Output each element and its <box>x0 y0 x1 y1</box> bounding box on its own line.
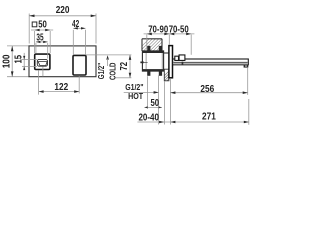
spout inner opening <box>37 59 47 66</box>
cold leader tail <box>107 59 109 67</box>
escutcheon plate side <box>169 46 173 78</box>
dim 70-90 arrow mid-left <box>164 33 169 36</box>
cold tick line <box>86 54 132 56</box>
dim 72 arrow top <box>129 55 132 60</box>
body top edge thick <box>142 51 163 53</box>
body bottom edge thick <box>142 69 163 71</box>
wall outline <box>142 39 162 51</box>
plate bottom edge extension to 100-dim <box>7 76 29 78</box>
dim 70-50 arrow mid-right <box>169 33 174 36</box>
aerator notch <box>245 66 247 67</box>
spout escutcheon square <box>35 54 50 69</box>
svg-text:122: 122 <box>54 82 68 93</box>
body peg top-left <box>147 46 150 51</box>
dim 50 arrow right <box>45 29 50 32</box>
aerator tick <box>244 65 249 68</box>
spout joint ring <box>182 62 184 65</box>
body internal line right <box>161 53 163 69</box>
dim 50 extension right <box>49 31 51 53</box>
dim 15 line <box>23 53 25 69</box>
svg-text:15: 15 <box>13 54 24 63</box>
dim 72 tick bottom <box>116 77 132 79</box>
dim 70-90 arrow left <box>147 33 152 36</box>
dim 70-90/70-50 shared extension <box>168 35 170 46</box>
dim 122 arrow right <box>74 90 79 93</box>
dim 256 line <box>170 92 247 94</box>
dim 220 line <box>29 15 96 17</box>
dim 72 arrow bottom <box>129 73 132 78</box>
dim 122 line <box>39 91 80 93</box>
svg-text:220: 220 <box>56 5 70 16</box>
dim 42 extension left <box>72 30 74 55</box>
body peg bottom-right <box>159 71 162 76</box>
dim 50 plaster extension left <box>147 76 149 109</box>
dim 42 extension right <box>85 30 87 55</box>
dim 50 arrow left <box>35 29 40 32</box>
svg-text:G1/2": G1/2" <box>125 83 144 92</box>
dim 50 plaster arrow right <box>159 106 162 108</box>
dim 35 line <box>36 41 48 43</box>
body internal line left <box>145 53 147 69</box>
dim line 70-90/70-50 <box>144 33 195 35</box>
plate top edge extension to 100-dim <box>7 45 29 47</box>
dim 256 arrow left <box>170 91 175 94</box>
svg-text:G1/2": G1/2" <box>97 63 106 80</box>
dim 220 arrow right <box>91 15 96 18</box>
svg-text:100: 100 <box>1 55 12 69</box>
spout bar <box>173 59 249 65</box>
wall section hatch <box>128 30 219 60</box>
dim 50 plaster line <box>144 106 162 108</box>
cartridge neck line <box>164 52 169 54</box>
dim 50 line <box>31 29 53 31</box>
dim 256 extension left <box>169 78 171 124</box>
dim 50 plaster extension right <box>158 75 160 124</box>
hot inlet stub <box>140 62 143 64</box>
svg-text:72: 72 <box>119 62 130 71</box>
svg-text:256: 256 <box>200 84 214 95</box>
body peg top-right <box>159 46 162 51</box>
dim 256/271 extension right (spout tip) <box>247 68 249 95</box>
handle block <box>73 55 86 75</box>
dim 20-40 leader <box>137 121 248 123</box>
dim 100 line <box>11 46 13 77</box>
spout centerline <box>42 67 44 77</box>
dim 42 arrow right <box>81 27 86 29</box>
spout lower shading <box>173 62 247 64</box>
dim 35 arrow right <box>43 41 48 43</box>
hatched block outline <box>164 69 169 81</box>
dim 122 extension left <box>38 71 40 95</box>
dim 15 tick top <box>22 59 37 61</box>
dim 70-90 extension left <box>146 35 148 51</box>
dim 220 extension left <box>28 14 30 44</box>
hot inlet line <box>144 61 148 63</box>
dim 72 line <box>129 55 131 78</box>
spout seam line <box>173 61 247 63</box>
dim 271 extension right <box>248 99 250 125</box>
dim 15 arrow top <box>23 56 25 60</box>
spout aerator mouth <box>38 62 47 66</box>
dim 50 square symbol <box>32 22 37 27</box>
hot leader arrow <box>154 91 159 94</box>
svg-text:271: 271 <box>202 111 216 122</box>
dim 35 extension left <box>35 43 37 53</box>
svg-text:HOT: HOT <box>128 92 143 101</box>
dim 70-50 extension right <box>190 35 192 55</box>
dim 50 plaster arrow left <box>144 106 147 108</box>
dim 220 extension right <box>95 14 97 44</box>
dim 50 extension left <box>34 31 36 53</box>
dim 100 arrow bottom <box>11 71 14 76</box>
dim 15 arrow bottom <box>23 66 25 70</box>
dim 35 extension right <box>47 43 49 59</box>
hot leader line <box>124 91 159 93</box>
dim 271 arrow right <box>244 121 249 124</box>
dim 256 arrow right <box>243 91 248 94</box>
dim 42 line <box>73 27 85 29</box>
body peg bottom-left <box>147 71 150 76</box>
svg-text:COLD: COLD <box>108 62 117 80</box>
dim 122 arrow left <box>39 90 44 93</box>
dim 35 arrow left <box>36 41 41 43</box>
dim 70-50 arrow right <box>186 33 191 36</box>
dim 42 arrow left <box>73 27 78 29</box>
dim 122 extension right <box>78 76 80 94</box>
dim 20-40 leader arrow <box>159 121 164 124</box>
handle lever side <box>175 55 185 61</box>
dim 271 arrow left <box>170 121 175 124</box>
dim 220 arrow left <box>29 15 34 18</box>
cold leader arrow <box>106 55 109 59</box>
hatched block <box>156 66 197 84</box>
wall plate outline <box>29 46 96 77</box>
dim 100 arrow top <box>11 46 14 51</box>
rough-in body <box>142 51 163 71</box>
dim 20-40 ext right <box>163 81 165 125</box>
dim 15 tick bottom <box>22 65 37 67</box>
